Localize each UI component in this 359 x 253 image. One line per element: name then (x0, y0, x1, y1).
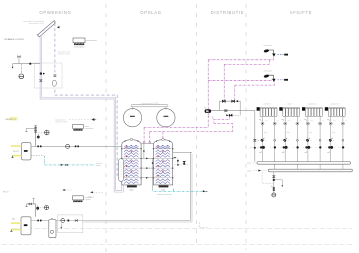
control wire H5 corner stub (214, 123, 233, 131)
pressure gauge M1 (19, 74, 24, 79)
shutoff valve (black dashes) on boiler1 pipe (37, 145, 41, 147)
sensor drop to inter-tank pipe 1 (143, 128, 145, 144)
radiator R2 thermostat glyph (281, 138, 289, 142)
radiator R1 valve glyph (259, 120, 261, 122)
radiator R4 supply valve (329, 122, 332, 125)
radiator R3 return thermo dot (319, 139, 321, 141)
tapwater line under tanks (cyan) (153, 188, 203, 195)
svg-text:voordruk 1,5 bar: voordruk 1,5 bar (58, 53, 71, 56)
flow arrow in solar group (43, 73, 45, 75)
flow arrow on circulation line (61, 164, 64, 166)
arrow end of cyan line (203, 190, 208, 192)
safety valve on riser stub (18, 56, 21, 64)
svg-text:WW KW: WW KW (13, 151, 19, 153)
svg-text:regeling: regeling (85, 199, 91, 201)
section separator DISTRIBUTIE/AFGIFTE (245, 4, 247, 250)
svg-text:slaapkamer 1: slaapkamer 1 (308, 104, 317, 106)
outdoor sensor unit S1 (263, 44, 288, 57)
valve on boiler2 branch (29, 203, 32, 205)
return chain fitting marks (271, 187, 275, 191)
yellow highlighted condensate connection (10, 218, 21, 232)
controller box WP (regelaar) (73, 196, 93, 202)
thermometer T2 (40, 206, 49, 210)
radiator R2 return thermo dot (297, 139, 299, 141)
page boundary dashed line lower (2, 244, 352, 246)
svg-text:aanv: aanv (247, 163, 251, 165)
radiator R3 supply drop (307, 116, 309, 161)
boiler2 top branch (27, 204, 36, 217)
svg-text:slaapkamer 2: slaapkamer 2 (331, 104, 340, 106)
radiator R4 return thermo dot (342, 139, 344, 141)
svg-text:Ta: Ta (257, 140, 259, 142)
collector label text (23, 20, 45, 25)
tank B-L heating coils (blue) (124, 145, 138, 183)
fill/drain line left of solar group (12, 64, 41, 69)
radiator R4 return shutoff dot (338, 146, 344, 148)
radiator R2 micro labels (287, 121, 302, 133)
label with yellow highlight (naverwarmer) (5, 117, 17, 121)
collector supply pipe (solid, down from collector to storage) (41, 36, 123, 191)
section separator OPWEKKING/OPSLAG (105, 4, 107, 252)
tank B-L base (hatched stand) (127, 185, 137, 191)
radiator R4 thermostat glyph (326, 138, 334, 142)
svg-text:oppervlakte 4,6 m2: oppervlakte 4,6 m2 (29, 22, 44, 25)
bypass valve 2 (232, 100, 235, 102)
sensor drop to tank B-R dome (162, 132, 164, 140)
radiator R1 (257, 104, 278, 117)
expansion vessel cylinder EV2 (49, 219, 56, 238)
svg-text:AFGIFTE: AFGIFTE (290, 10, 313, 15)
shutoff valve (black dashes) after pump P2 (75, 145, 79, 147)
controller box CV (regelaar) (73, 125, 94, 131)
radiator R1 thermostat glyph (258, 138, 266, 142)
radiator R4 (325, 104, 346, 117)
dashed branch to return chain (262, 172, 273, 183)
manometer stub (20, 64, 22, 74)
check valve black on CV pipe (68, 220, 70, 222)
svg-text:DISTRIBUTIE: DISTRIBUTIE (211, 10, 245, 15)
circulation pump P2 on boiler1 pipe (66, 144, 70, 148)
tank B-R dome fitting (162, 139, 165, 141)
buffer circle left (vat 1) (123, 109, 141, 127)
radiator R4 supply shutoff valve pair (326, 146, 336, 153)
tank B-R base (hatched stand) (159, 185, 169, 191)
distribution feed riser fittings (250, 139, 258, 148)
tank B-L dome shoulder fittings (124, 141, 138, 142)
boiler1 connection group: riser (34, 125, 36, 146)
yellow highlighted tapwater connection top (11, 145, 22, 147)
shutoff valve (black dashes) on CV pipe (37, 220, 41, 222)
control wire H6 (150, 131, 233, 133)
control wire vertical V3 (234, 85, 236, 100)
mixing valve with actuator (226, 114, 240, 116)
radiator R2 (279, 104, 300, 117)
radiator R3 return drop (319, 116, 321, 169)
radiator R4 valve glyph (327, 120, 329, 122)
bypass valve 1 (222, 100, 225, 102)
control wire H5 (to tank sensors) (144, 127, 208, 129)
drain branch left with foot (25, 128, 35, 131)
svg-text:verbindingsleiding 2x DN25: verbindingsleiding 2x DN25 (141, 103, 159, 105)
return chain black valve (273, 179, 275, 181)
radiator R3 (302, 104, 323, 117)
return chain valve (272, 176, 275, 178)
radiator R2 valve glyph (282, 120, 284, 122)
boiler1 supply pipe to tank (31, 145, 122, 147)
radiator R1 return drop (274, 116, 276, 169)
return manifold bar (268, 169, 352, 172)
distribution pump P4 (black) (204, 107, 211, 113)
boiler B2 (CV ketel) (21, 217, 31, 235)
note text with leader arrow (55, 118, 96, 123)
tank B-R takeoff stub with arrow (173, 157, 177, 159)
storage tank B-R body (153, 140, 172, 185)
flow arrow near collector return (57, 26, 60, 28)
controller box solar (regelaar) (73, 38, 97, 49)
radiator R2 supply shutoff valve pair (280, 146, 290, 153)
svg-text:woonkamer: woonkamer (263, 104, 271, 106)
expansion vessel EV1 (52, 80, 56, 86)
inter-tank connector pipes with arrows (141, 158, 153, 179)
svg-text:P4: P4 (204, 107, 206, 109)
circulation line label (96, 162, 103, 167)
svg-text:OPWEKKING: OPWEKKING (39, 10, 71, 15)
inter-tank vertical jog A (143, 144, 145, 159)
dashed elbow near riser bottom (199, 222, 208, 228)
radiator R3 micro labels (310, 121, 325, 133)
solar group frame (34, 63, 62, 88)
radiator R2 supply valve (284, 122, 287, 125)
radiator R3 return valve (319, 122, 322, 125)
svg-text:leiding: leiding (96, 165, 101, 167)
svg-text:zonneregelaar: zonneregelaar (74, 46, 85, 49)
return chain below manifold: stub (273, 172, 275, 193)
tank B-L internal separators (122, 149, 141, 178)
svg-text:OPSLAG: OPSLAG (140, 10, 161, 15)
radiator R3 thermostat glyph (304, 138, 312, 142)
outdoor sensor unit S2 (263, 69, 288, 82)
radiator R1 supply valve (261, 122, 264, 125)
radiator R2 return shutoff dot (293, 146, 299, 148)
bridge pipe between buffer circles (131, 103, 168, 110)
sensor drop to inter-tank pipe 2 (149, 132, 151, 144)
bypass dot (237, 100, 239, 102)
bypass loop top pipe (220, 101, 241, 115)
storage tank B-L body (122, 140, 141, 185)
arrow symbol left of tanks bottom (88, 191, 103, 198)
svg-text:NAVERW. CV: NAVERW. CV (5, 118, 16, 121)
yellow highlighted gas connection (11, 222, 21, 224)
radiator R1 supply drop (262, 116, 264, 161)
control wire H3 to outdoor sensor 2 (208, 79, 272, 80)
tapwater circulation line (cyan dashed) (31, 156, 95, 165)
supply manifold bar (257, 162, 351, 165)
buffer circle right (vat 2) (157, 109, 175, 127)
tank B-R takeoff to distribution (supply) (173, 151, 192, 153)
solar collector panel (37, 20, 56, 37)
radiator R3 return shutoff dot (316, 146, 322, 148)
check valve (dot) in solar group (40, 72, 42, 74)
tank B-R wall fittings (153, 148, 174, 178)
inter-tank vertical jog B (152, 158, 154, 188)
pump group frame (58, 215, 83, 233)
distribution main pipe (211, 111, 255, 162)
valve V-b on riser (34, 130, 37, 132)
svg-text:4,6: 4,6 (43, 30, 45, 32)
valve V-a on riser (34, 127, 37, 129)
radiator R4 return valve (341, 122, 344, 125)
CV return pipe (83, 221, 192, 223)
boiler2 riser with cap (33, 198, 35, 204)
radiator R4 micro labels (332, 121, 347, 133)
thermometer T1 (circle with cross) (38, 130, 49, 135)
control wire vertical V2 (223, 64, 225, 100)
CV supply pipe to distribution riser (31, 220, 190, 222)
supply manifold label (247, 163, 256, 165)
radiator R3 supply valve (306, 122, 309, 125)
inter-tank top pipe (141, 143, 153, 145)
valve in pump group (75, 220, 78, 222)
ball valve (black dot) on fill line (29, 63, 31, 65)
tank B-R flow arrows (red) (158, 146, 165, 177)
tank B-R heating coils (blue) (156, 145, 170, 183)
page boundary dashed line upper (12, 228, 352, 230)
radiator R3 valve glyph (304, 120, 306, 122)
circulation pump P3 (61, 219, 65, 223)
control wire H1 to outdoor sensor 1 (208, 57, 273, 60)
radiator R2 return valve (296, 122, 299, 125)
radiator R4 supply drop (330, 116, 332, 161)
control wire H4 (235, 83, 275, 86)
svg-text:1000L: 1000L (129, 189, 133, 191)
radiator R2 supply drop (284, 116, 286, 161)
ball valve dot near boiler2 (36, 205, 39, 210)
return manifold label with arrow (247, 169, 266, 172)
solar group label text (58, 51, 71, 56)
tank B-L flow arrows (red) (126, 146, 133, 177)
boiler B1 (tapwater boiler) (21, 143, 31, 160)
drain arrow in pump group (60, 224, 62, 229)
pump label leader with black tag (212, 110, 227, 112)
svg-text:WP-CV: WP-CV (3, 192, 9, 194)
leader dashes with arrow to controller (62, 189, 72, 191)
control wire vertical V1 (207, 60, 209, 128)
external heat exchanger capsule at tank B-L (119, 159, 124, 182)
svg-text:keuken: keuken (287, 104, 292, 106)
drain stub with foot (26, 204, 28, 207)
svg-text:TW-AANSL KOUDW: TW-AANSL KOUDW (4, 38, 25, 41)
collector return pipe (dashed) with expansion vessel (53, 23, 117, 176)
tank B-R dome shoulder fittings (156, 141, 170, 142)
radiator R1 supply shutoff valve pair (258, 146, 268, 153)
radiator R1 return shutoff dot (270, 146, 276, 148)
svg-text:expansie: expansie (88, 196, 94, 198)
control wire from mixing valve (214, 116, 230, 123)
return chain branch right with arrow (275, 180, 283, 187)
distribution riser (double line from tanks down) (190, 152, 192, 222)
control wire H2 (224, 60, 269, 64)
tank B-L dome fitting (130, 139, 133, 141)
section separator OPSLAG/DISTRIBUTIE (196, 4, 198, 246)
radiator R1 micro labels (264, 121, 279, 133)
radiator R3 supply shutoff valve pair (303, 146, 313, 153)
tank B-R return with three-way valve (174, 158, 188, 166)
yellow highlighted tapwater connection bottom (11, 151, 21, 157)
return chain pump P5 (272, 193, 276, 197)
valve on circulation line (65, 164, 67, 166)
radiator R1 return thermo dot (274, 139, 276, 141)
radiator R1 return valve (273, 122, 276, 125)
svg-text:kamer-: kamer- (85, 126, 90, 128)
ball valve dot near boiler1 (37, 134, 40, 139)
tank B-L wall fittings (121, 148, 142, 178)
marks below pump (209, 113, 213, 119)
radiator R4 return drop (342, 116, 344, 169)
radiator R2 return drop (296, 116, 298, 169)
valve in solar group left column (39, 80, 42, 82)
tank B-R internal separators (153, 149, 172, 178)
